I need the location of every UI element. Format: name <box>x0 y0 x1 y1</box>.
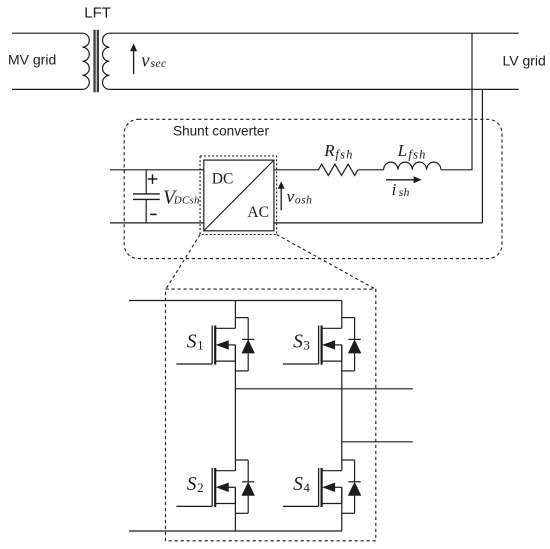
svg-text:S: S <box>293 332 303 353</box>
H-bridge dashed enclosure <box>166 289 376 541</box>
diode of S1 cathode bar <box>242 338 254 340</box>
diode of S4 cathode bar <box>348 481 360 483</box>
transistor S4 gate lead <box>283 505 319 507</box>
svg-text:fsh: fsh <box>335 148 353 162</box>
transistor S2 body arrow stub <box>216 483 229 492</box>
wire: tap from LV bottom line down to shunt converter <box>481 89 483 223</box>
svg-text:S: S <box>187 474 197 495</box>
label plus <box>148 174 158 184</box>
svg-text:sh: sh <box>399 187 410 199</box>
arrow v_sec <box>133 50 135 74</box>
transistor S3 source stub <box>322 360 342 362</box>
svg-text:3: 3 <box>303 338 310 353</box>
transistor S3 body arrow stub <box>322 340 335 349</box>
wire: bridge negative rail <box>129 530 342 532</box>
wire: phase A output <box>235 388 412 390</box>
wire: right leg segments <box>341 301 343 532</box>
transistor S2 channel bar <box>214 468 216 507</box>
svg-text:2: 2 <box>197 480 204 495</box>
svg-text:Shunt converter: Shunt converter <box>173 123 269 138</box>
svg-text:osh: osh <box>295 194 312 206</box>
transistor S4 gate bar <box>318 468 320 507</box>
transistor S2 gate lead <box>177 505 213 507</box>
svg-text:LFT: LFT <box>84 5 111 22</box>
dashed projection line right <box>277 235 376 290</box>
transistor S4 channel bar <box>321 468 323 507</box>
transistor S3 gate bar <box>318 326 320 365</box>
wire: bridge positive rail <box>129 300 342 302</box>
svg-text:i: i <box>392 180 397 199</box>
dashed projection line left <box>166 235 200 290</box>
transistor S1 source-body tie wire <box>234 345 236 361</box>
wire: LV grid bottom conductor <box>109 88 518 90</box>
wire jog to diode top of S1 <box>235 317 248 319</box>
resistor R_fsh <box>318 164 358 175</box>
svg-text:S: S <box>187 332 197 353</box>
transformer LFT primary winding <box>83 33 90 89</box>
diode of S3 cathode bar <box>348 338 360 340</box>
wire jog to diode bottom of S4 <box>342 512 355 514</box>
shunt converter dashed enclosure <box>124 119 502 258</box>
converter U1 diagonal <box>204 160 274 231</box>
svg-text:MV grid: MV grid <box>8 52 56 68</box>
transistor S2 source stub <box>215 503 235 505</box>
svg-text:1: 1 <box>197 338 204 353</box>
wire jog to diode bottom of S3 <box>342 370 355 372</box>
svg-text:4: 4 <box>303 480 310 495</box>
converter U1 dashed selection rectangle <box>200 156 277 235</box>
transistor S1 gate lead <box>177 363 213 365</box>
arrow i_sh <box>386 179 415 181</box>
transistor S2 source-body tie wire <box>234 487 236 503</box>
capacitor bottom lead <box>145 199 147 223</box>
arrow v_osh <box>280 188 282 211</box>
wire: LV grid top conductor <box>109 32 518 34</box>
transformer LFT secondary winding <box>103 33 110 89</box>
wire: tap from LV top line down to shunt converter <box>471 33 473 170</box>
transistor S4 source-body tie wire <box>341 487 343 503</box>
diode of S3 triangle <box>348 339 361 353</box>
diode of S2 cathode bar <box>242 481 254 483</box>
wire between R and L <box>358 169 383 171</box>
wire jog to diode top of S4 <box>342 459 355 461</box>
wire jog to diode top of S2 <box>235 459 248 461</box>
diode of S1 branch wire <box>247 318 249 371</box>
svg-text:R: R <box>323 141 335 160</box>
wire: converter AC output bottom <box>274 222 483 224</box>
svg-text:DC: DC <box>212 171 234 188</box>
transistor S1 source stub <box>215 360 235 362</box>
wire: converter AC output top <box>274 169 319 171</box>
converter U1 DC/AC box <box>204 160 274 231</box>
transistor S4 drain stub <box>322 470 342 472</box>
transistor S1 drain stub <box>215 327 235 329</box>
wire: left leg segments <box>234 301 236 532</box>
transistor S1 gate bar <box>211 326 213 365</box>
svg-text:AC: AC <box>247 204 269 221</box>
transistor S1 body arrow stub <box>216 340 229 349</box>
transistor S4 body arrow stub <box>322 483 335 492</box>
transistor S2 gate bar <box>211 468 213 507</box>
diode of S4 triangle <box>348 482 361 496</box>
svg-text:v: v <box>287 187 295 206</box>
transistor S3 channel bar <box>321 326 323 365</box>
svg-text:sec: sec <box>150 56 167 70</box>
diode of S2 branch wire <box>247 460 249 513</box>
svg-text:S: S <box>293 474 303 495</box>
transistor S4 source stub <box>322 503 342 505</box>
capacitor plates <box>133 193 160 195</box>
transistor S3 drain stub <box>322 327 342 329</box>
wire jog to diode bottom of S1 <box>235 370 248 372</box>
wire jog to diode bottom of S2 <box>235 512 248 514</box>
svg-text:DCsh: DCsh <box>173 195 200 207</box>
diode of S1 triangle <box>242 339 255 353</box>
transistor S1 channel bar <box>214 326 216 365</box>
svg-text:fsh: fsh <box>408 148 426 162</box>
capacitor C dc-link top lead <box>145 170 147 194</box>
transistor S3 gate lead <box>283 363 319 365</box>
wire: MV grid bottom conductor <box>12 88 83 90</box>
wire: MV grid top conductor <box>12 32 83 34</box>
wire jog to diode top of S3 <box>342 317 355 319</box>
transistor S3 source-body tie wire <box>341 345 343 361</box>
transistor S2 drain stub <box>215 470 235 472</box>
svg-text:LV grid: LV grid <box>503 53 546 69</box>
diode of S2 triangle <box>242 482 255 496</box>
diode of S4 branch wire <box>354 460 356 513</box>
transformer LFT core bars <box>93 30 95 92</box>
wire: DC bus top into converter <box>110 169 204 171</box>
svg-text:v: v <box>141 51 150 71</box>
diode of S3 branch wire <box>354 318 356 371</box>
wire from L to LV tap <box>441 169 472 171</box>
label minus <box>150 214 156 216</box>
svg-text:L: L <box>397 141 407 160</box>
inductor L_fsh <box>384 162 441 170</box>
wire: phase B output <box>342 441 413 443</box>
wire: DC bus bottom into converter <box>110 222 204 224</box>
